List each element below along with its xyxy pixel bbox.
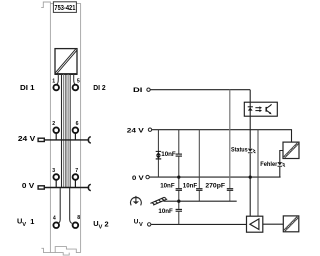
svg-text:1: 1 (30, 217, 34, 226)
terminal UV (148, 223, 151, 226)
shield / screen symbol (150, 197, 167, 205)
svg-text:0 V: 0 V (132, 175, 144, 182)
wire 3 (65, 74, 67, 188)
contact 3 (53, 174, 59, 180)
junction node 0V/status (249, 175, 252, 178)
contact 1 (53, 85, 59, 91)
TVS suppressor diode D1 (156, 151, 162, 160)
wire 5 (69, 74, 71, 188)
svg-text:DI 2: DI 2 (93, 83, 105, 92)
stem contact 7 (74, 180, 76, 188)
0V rail (module row) (38, 184, 91, 190)
wire 1 (61, 74, 63, 188)
Fehler LED (260, 161, 285, 168)
svg-text:0 V: 0 V (22, 181, 34, 190)
capacitor 10nF (0V-shield) (176, 189, 182, 191)
wire entry flag 24V (38, 138, 44, 141)
svg-text:6: 6 (76, 121, 79, 127)
optocoupler light arrows (255, 106, 262, 112)
wire 4 (67, 74, 69, 188)
svg-text:7: 7 (75, 168, 78, 174)
svg-text:3: 3 (52, 168, 55, 174)
contact 8 (73, 222, 79, 228)
svg-text:V: V (139, 222, 143, 228)
label UV 1 (17, 217, 34, 228)
module outline (left terminal block body) (41, 2, 80, 255)
svg-text:V: V (22, 222, 26, 228)
label UV (schematic) (134, 219, 143, 228)
terminal contact circles (53, 85, 78, 228)
svg-text:DI: DI (133, 87, 143, 94)
Status LED (231, 147, 256, 154)
shield bus wire (164, 200, 237, 202)
svg-text:2: 2 (52, 121, 55, 127)
svg-text:V: V (99, 224, 103, 230)
capacitor 270pF (227, 189, 233, 191)
wire bend to contact 1 (57, 74, 59, 85)
wire 2 (63, 74, 65, 188)
svg-text:270pF: 270pF (205, 183, 225, 190)
optocoupler zener diode (248, 106, 253, 110)
capacitor 10nF (shield-UV) (176, 209, 182, 211)
stem contact 2 (55, 133, 57, 140)
svg-text:8: 8 (77, 215, 80, 221)
svg-text:10nF: 10nF (158, 208, 172, 215)
svg-text:Fehler: Fehler (260, 161, 278, 168)
wire DI coupling branch (gray) (229, 90, 231, 202)
DC/DC converter box (247, 216, 263, 232)
label box 753-421 (53, 2, 76, 13)
svg-text:10nF: 10nF (161, 151, 175, 158)
contact 6 (73, 127, 79, 133)
contact 5 (73, 85, 79, 91)
junction node shield/cap (177, 200, 180, 203)
wire UV rail (151, 223, 246, 225)
wire bundle (internal wires) (57, 74, 76, 223)
stem contact 3 (55, 180, 57, 188)
24V rail (module row) (38, 137, 91, 143)
terminal DI (147, 88, 150, 91)
wire optocoupler input drop (249, 90, 251, 217)
svg-text:1: 1 (52, 78, 55, 84)
svg-text:Status: Status (231, 147, 248, 154)
svg-text:DI 1: DI 1 (20, 83, 35, 92)
svg-text:5: 5 (77, 78, 80, 84)
Fehler LED branch wire (280, 151, 283, 178)
wire entry flag 0V (38, 186, 44, 189)
wire branch mid (198, 130, 200, 202)
jumper contact arc 24V (88, 137, 90, 143)
wire 0V rail (44, 187, 89, 189)
stem contact 6 (74, 133, 76, 140)
junction node 0V/cap (177, 175, 180, 178)
svg-text:2: 2 (105, 220, 109, 229)
wire dcdc to electronics (263, 223, 284, 225)
terminal 0V (146, 175, 149, 178)
svg-text:24 V: 24 V (18, 134, 35, 143)
wire bend to contact 5 (74, 74, 76, 85)
optocoupler U1 (244, 102, 277, 116)
contact 7 (73, 174, 79, 180)
capacitor 10nF (24V-0V) (176, 154, 182, 156)
contact 4 (53, 222, 59, 228)
label UV 2 (93, 219, 108, 230)
contact 2 (53, 127, 59, 133)
wire branch TVS (157, 130, 159, 177)
functional earth symbol (131, 196, 142, 206)
wire 0V rail (150, 176, 281, 178)
wire 24V rail (152, 130, 292, 142)
wire DI (150, 89, 250, 91)
terminal 24V (148, 128, 151, 131)
wire status/dcdc branch (257, 130, 259, 217)
svg-text:10nF: 10nF (183, 183, 197, 190)
pin numbers (52, 78, 80, 221)
svg-text:753-421: 753-421 (54, 3, 75, 12)
wire to contact 4 (58, 188, 60, 224)
wire branch filter cap (178, 130, 180, 225)
optocoupler phototransistor (266, 104, 271, 113)
electronics box top right (diagonal) (283, 142, 299, 158)
jumper contact arc 0V (88, 184, 90, 190)
electronics box bottom right (diagonal) (283, 216, 299, 232)
isolation box (galvanic separation, diagonal) (55, 49, 78, 75)
wire 24V rail (44, 139, 89, 141)
wire to contact 8 (70, 188, 72, 224)
capacitor 10nF (mid-shield) (196, 189, 202, 191)
svg-text:4: 4 (53, 215, 56, 221)
contact stems row2/row3 (56, 133, 75, 188)
svg-text:24 V: 24 V (127, 127, 145, 134)
svg-text:10nF: 10nF (160, 183, 174, 190)
